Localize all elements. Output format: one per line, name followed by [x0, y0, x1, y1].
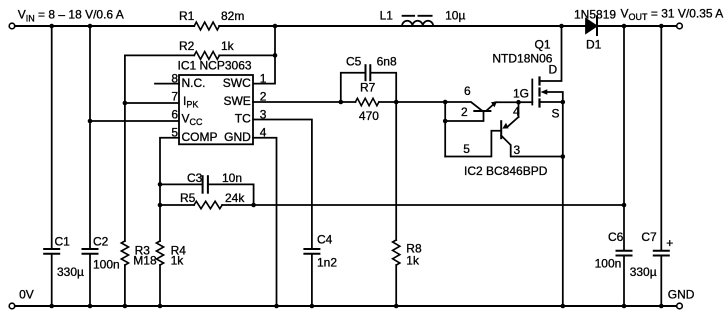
svg-text:0V: 0V: [19, 287, 34, 301]
node IC2 pin6 junction: [443, 100, 448, 105]
node C5 left junction: [339, 100, 344, 105]
capacitor C5 branch: [341, 73, 365, 102]
svg-text:100n: 100n: [595, 256, 622, 270]
node Q3 collector / source rail junction: [561, 154, 566, 159]
svg-text:2: 2: [260, 90, 267, 104]
wire N.C. stub pin 8: [155, 83, 179, 85]
node feedback C6 junction: [622, 203, 627, 208]
transistor Q3 base bar: [500, 121, 502, 138]
svg-text:2: 2: [461, 105, 468, 119]
transistor Q2 base bar: [474, 110, 490, 112]
wire Q3 base pin 5: [445, 131, 501, 157]
svg-text:8: 8: [171, 71, 178, 85]
svg-text:4: 4: [260, 126, 267, 140]
op-amp U1 : IC1 NCP3063 box: [179, 75, 253, 144]
svg-text:3: 3: [260, 107, 267, 121]
ground terminal GND: [677, 303, 683, 309]
wire top rail to output: [597, 25, 677, 27]
svg-text:24k: 24k: [225, 191, 245, 205]
svg-text:7: 7: [171, 90, 178, 104]
svg-text:C6: C6: [608, 230, 624, 244]
svg-text:470: 470: [359, 109, 379, 123]
wire TC pin 3 down to C4: [253, 120, 312, 249]
svg-text:R2: R2: [179, 39, 195, 53]
transistor Q2 emitter with arrow: [486, 104, 494, 111]
svg-text:1N5819: 1N5819: [574, 8, 616, 22]
wire C7 bottom: [660, 256, 662, 306]
wire Q2 base pin 2: [445, 111, 483, 121]
svg-text:5: 5: [171, 126, 178, 140]
svg-text:COMP: COMP: [182, 130, 218, 144]
node gate G junction: [516, 100, 521, 105]
wire C2 branch bottom: [89, 255, 91, 306]
node R5/C3 right junction: [251, 203, 256, 208]
node Vcc junction: [88, 119, 93, 124]
svg-text:+: +: [666, 236, 673, 250]
svg-text:IC2 BC846BPD: IC2 BC846BPD: [464, 164, 548, 178]
node bottom rail C4: [310, 304, 315, 309]
wire COMP vertical to R5/C3 and R4: [159, 184, 161, 241]
svg-text:1k: 1k: [406, 254, 420, 268]
svg-text:Q1: Q1: [535, 38, 551, 52]
wire R8 bottom: [395, 265, 397, 306]
wire GND pin 4 down: [253, 138, 277, 306]
node R1/R2/SWC junction top: [273, 24, 278, 29]
diode D1: [586, 19, 597, 33]
resistor R7: [355, 98, 378, 105]
node bottom rail C7: [659, 304, 664, 309]
node input rail C2 tap: [88, 24, 93, 29]
svg-text:C1: C1: [55, 234, 71, 248]
node bottom rail GND pin: [274, 304, 279, 309]
transistor Q2 (IC2 upper NPN): collector wire pin 6: [445, 102, 482, 111]
svg-text:C7: C7: [641, 230, 657, 244]
wire C1 branch bottom: [51, 255, 53, 306]
wire top rail left: [15, 25, 194, 27]
svg-text:C2: C2: [93, 234, 109, 248]
svg-text:1n2: 1n2: [317, 256, 337, 270]
wire SWE pin 2 to R7 node: [253, 101, 355, 103]
svg-text:C5: C5: [346, 55, 362, 69]
svg-text:6n8: 6n8: [377, 55, 397, 69]
transistor Q1 source lead: [540, 101, 563, 103]
node R5 left junction: [158, 203, 163, 208]
svg-text:S: S: [552, 106, 560, 120]
wire C6 bottom: [623, 256, 625, 306]
wire R7 right to IC2: [379, 101, 445, 103]
svg-text:6: 6: [171, 107, 178, 121]
node bottom rail R8: [394, 304, 399, 309]
wire gate node down to Q3 emitter: [518, 102, 520, 117]
resistor R3: [121, 241, 128, 265]
resistor R2: [125, 54, 194, 56]
svg-text:R1: R1: [179, 9, 195, 23]
svg-text:D: D: [549, 63, 558, 77]
wire output node down to C7: [660, 26, 662, 250]
transistor Q1 body arrow: [547, 92, 563, 102]
wire C1 branch top: [51, 26, 53, 248]
wire bottom rail: [15, 305, 677, 307]
node input rail C1 tap: [49, 24, 54, 29]
svg-text:1: 1: [260, 71, 267, 85]
svg-text:GND: GND: [224, 130, 251, 144]
wire R4 bottom: [159, 265, 161, 306]
wire Ipk to IC1 pin 7: [125, 102, 179, 104]
svg-text:SWE: SWE: [223, 94, 250, 108]
wire C4 bottom: [311, 255, 313, 306]
resistor R1: [194, 22, 219, 30]
node Ipk junction: [123, 101, 128, 106]
transistor Q1 gate lead: [519, 101, 533, 103]
wire C2 branch top: [89, 26, 91, 248]
svg-text:3: 3: [514, 143, 521, 157]
svg-text:D1: D1: [586, 38, 602, 52]
svg-text:1k: 1k: [171, 254, 185, 268]
wire R8 branch from gate-drive node: [395, 102, 397, 240]
node R2 right junction: [273, 53, 278, 58]
wire IC2 left vertical: [444, 102, 446, 157]
svg-text:330µ: 330µ: [630, 265, 657, 279]
node Vout C7 tap: [659, 24, 664, 29]
node Vout C6 tap: [622, 24, 627, 29]
transistor Q1 drain lead: [540, 26, 562, 81]
resistor R4: [156, 241, 163, 265]
node bottom rail R3: [123, 304, 128, 309]
capacitor C3 branch: [160, 183, 202, 185]
svg-text:10µ: 10µ: [445, 9, 465, 23]
svg-text:SWC: SWC: [223, 76, 251, 90]
svg-text:L1: L1: [380, 9, 394, 23]
capacitor C4: [304, 248, 319, 250]
node bottom rail R4: [158, 304, 163, 309]
node L1/D1/drain junction: [559, 24, 564, 29]
svg-text:100n: 100n: [93, 258, 120, 272]
capacitor C1: [44, 248, 59, 250]
svg-text:TC: TC: [235, 112, 251, 126]
capacitor C7: [654, 250, 669, 252]
svg-text:NTD18N06: NTD18N06: [492, 52, 552, 66]
wire output node down to C6: [623, 26, 625, 250]
wire R3 bottom: [124, 265, 126, 306]
svg-text:1G: 1G: [513, 87, 529, 101]
wire SWC pin1 up to R1/R2 junction: [253, 26, 275, 84]
resistor R5: [160, 204, 194, 206]
svg-text:82m: 82m: [221, 9, 244, 23]
node bottom rail C1: [49, 304, 54, 309]
input terminal: [9, 23, 15, 29]
svg-text:5: 5: [463, 142, 470, 156]
wire COMP pin 5: [160, 138, 179, 185]
node bottom rail Q1 source: [561, 304, 566, 309]
node C3 junction: [158, 182, 163, 187]
wire Vcc from C2 line to IC1 pin 6: [90, 120, 179, 122]
wire Q3 collector pin 3: [501, 136, 563, 157]
wire R2 left / Ipk vertical: [124, 55, 126, 241]
node C5/R7/R8 right junction: [394, 100, 399, 105]
svg-text:C4: C4: [317, 233, 333, 247]
capacitor C2: [83, 248, 98, 250]
wire emitter to gate node: [496, 101, 519, 103]
capacitor C6: [617, 250, 632, 252]
svg-text:330µ: 330µ: [57, 265, 84, 279]
resistor R8: [393, 240, 400, 265]
output terminal: [677, 23, 683, 29]
svg-text:C3: C3: [187, 171, 203, 185]
wire Q1 source down to bottom rail: [562, 102, 564, 306]
svg-text:N.C.: N.C.: [182, 76, 206, 90]
svg-text:GND: GND: [668, 288, 695, 302]
node bottom rail C6: [622, 304, 627, 309]
inductor L1: [402, 21, 433, 26]
node bottom rail C2: [88, 304, 93, 309]
svg-text:R5: R5: [180, 191, 196, 205]
transistor Q1 gate bar: [531, 80, 533, 105]
svg-text:10n: 10n: [222, 171, 242, 185]
node Q1 source junction: [561, 100, 566, 105]
svg-text:M18: M18: [133, 254, 157, 268]
wire feedback line to C6 node: [254, 204, 624, 206]
svg-text:IC1 NCP3063: IC1 NCP3063: [178, 59, 252, 73]
svg-text:1k: 1k: [221, 39, 235, 53]
svg-text:6: 6: [464, 84, 471, 98]
transistor Q1 channel segments: [538, 78, 540, 85]
node IC2 pin2 junction: [443, 119, 448, 124]
wire top rail mid: [219, 25, 586, 27]
ground terminal 0V: [9, 303, 15, 309]
svg-text:R7: R7: [360, 81, 376, 95]
transistor Q3 (IC2 lower PNP) emitter with arrow: [508, 117, 519, 126]
svg-text:4: 4: [513, 105, 520, 119]
